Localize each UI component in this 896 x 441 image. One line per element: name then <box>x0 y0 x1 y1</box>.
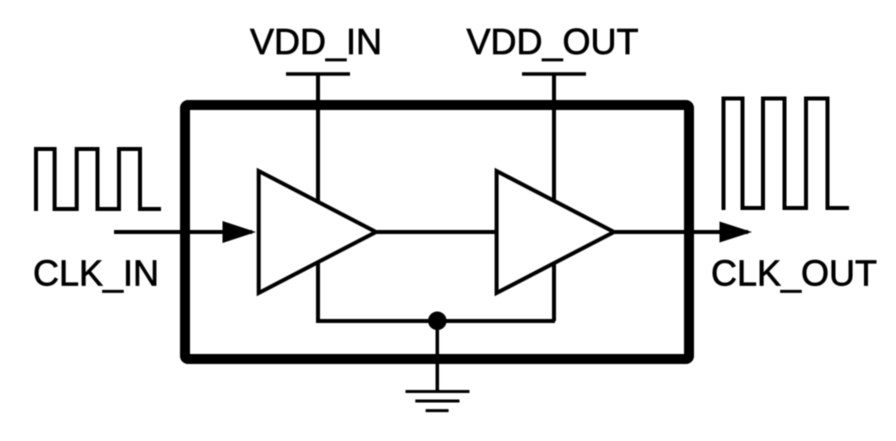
svg-text:VDD_IN: VDD_IN <box>250 21 382 62</box>
svg-text:CLK_IN: CLK_IN <box>33 253 159 294</box>
svg-text:CLK_OUT: CLK_OUT <box>711 253 877 294</box>
svg-text:VDD_OUT: VDD_OUT <box>467 21 639 62</box>
